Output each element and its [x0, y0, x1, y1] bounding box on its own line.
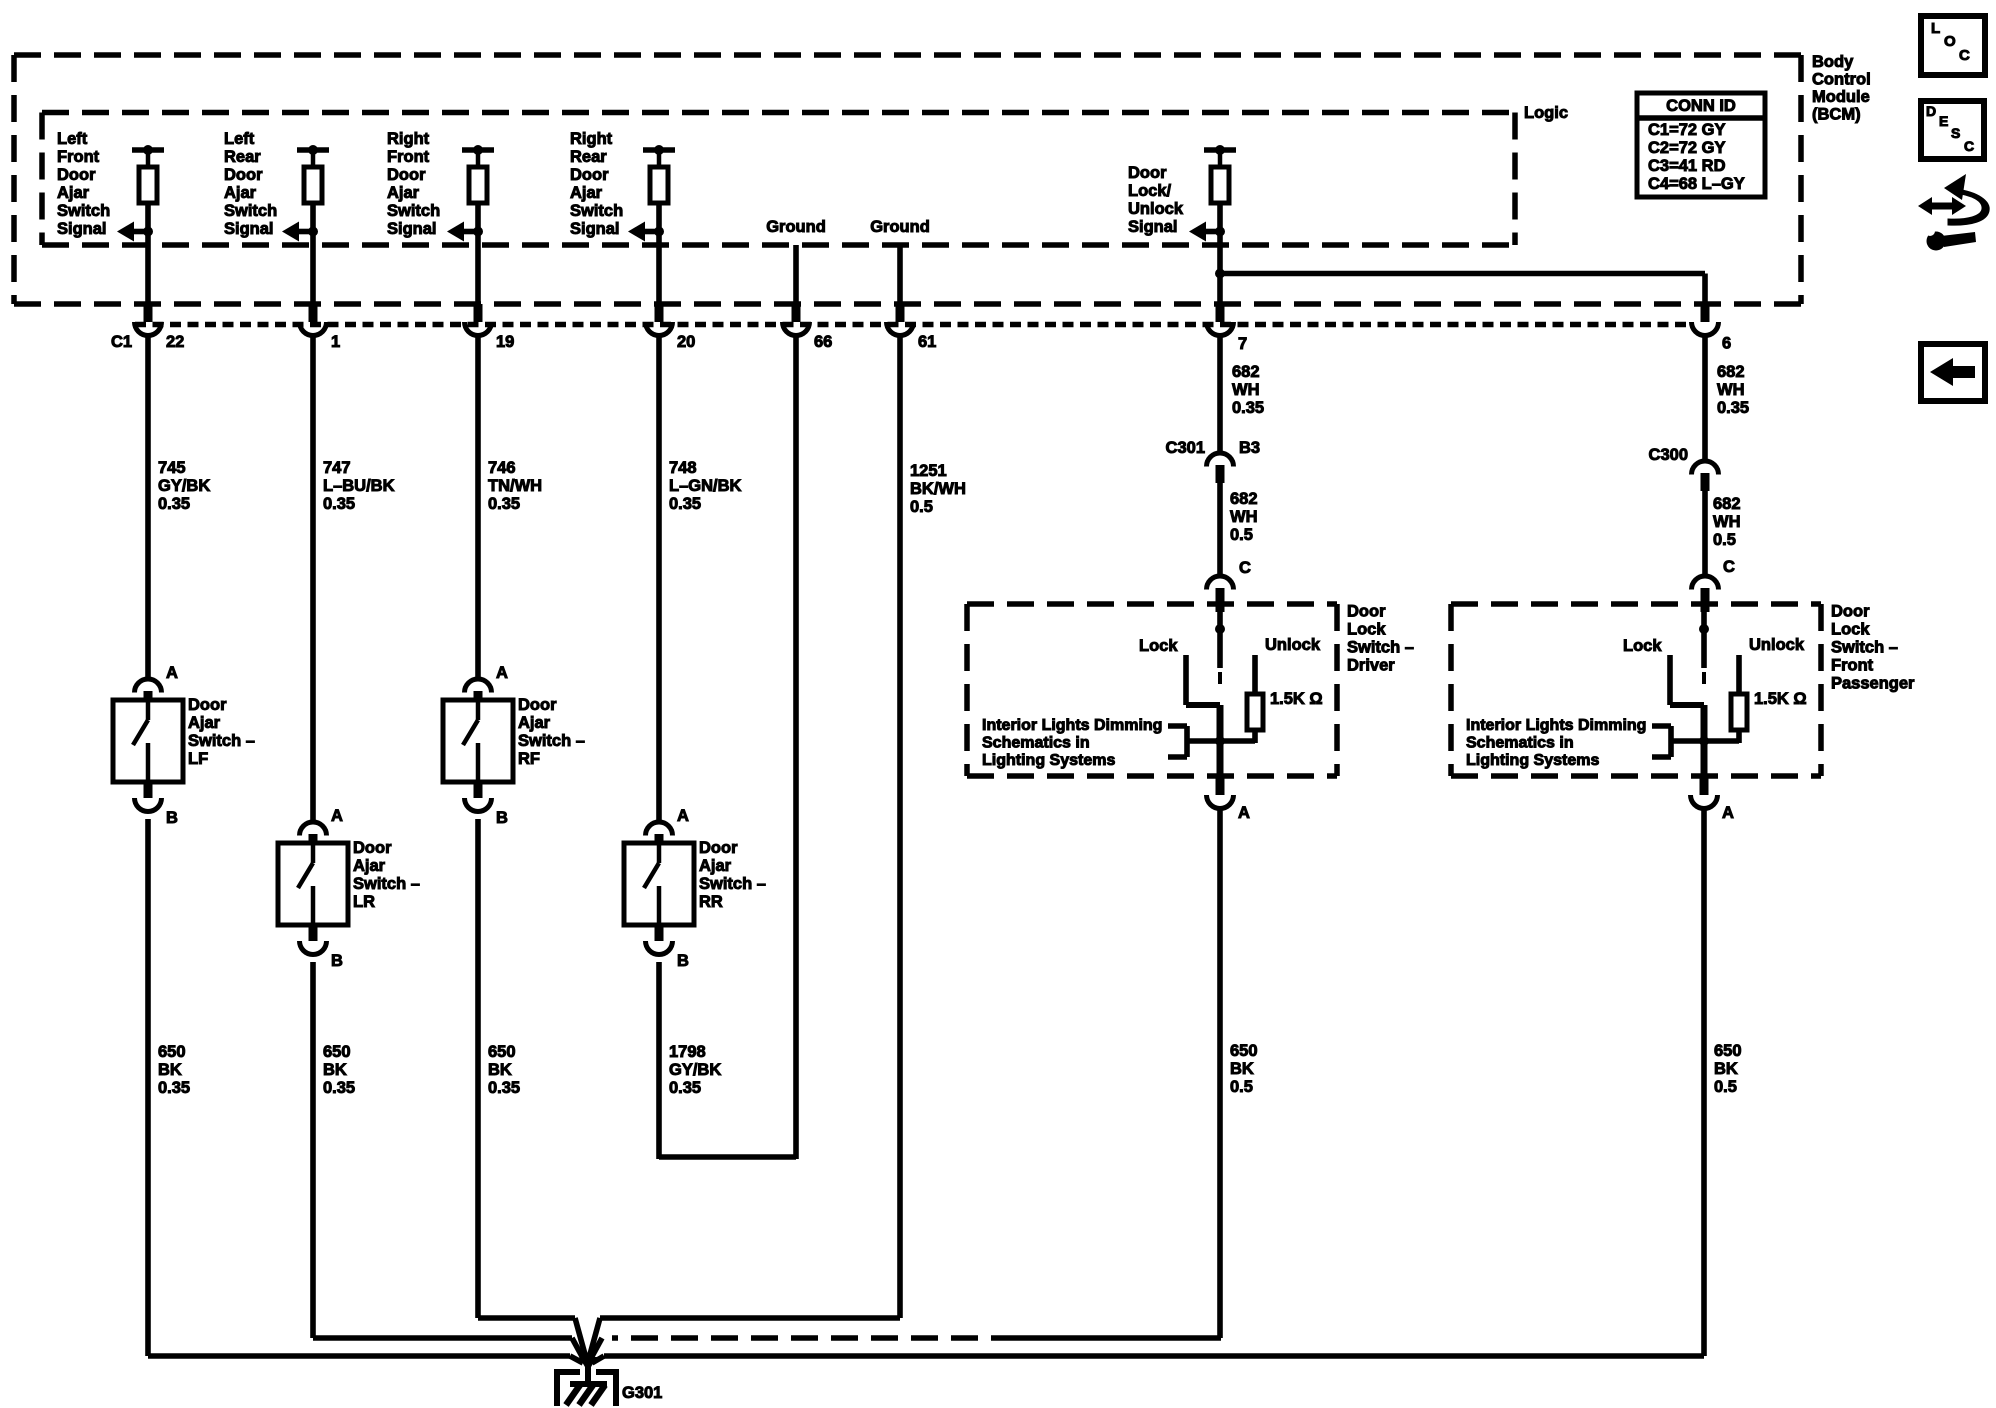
svg-text:B3: B3 — [1239, 439, 1260, 457]
connector A above switch — [646, 807, 690, 845]
ground wire to BCM pin 61 — [887, 245, 937, 351]
svg-text:Passenger: Passenger — [1831, 675, 1915, 693]
Door Ajar Switch – RR label — [699, 839, 766, 911]
connector B below switch — [300, 924, 344, 970]
svg-text:Front: Front — [57, 148, 100, 166]
wire to pin 20 and connector C1 pin 20 — [646, 232, 696, 351]
svg-text:C: C — [1964, 138, 1974, 154]
Door Lock Switch – Driver label — [1347, 603, 1414, 675]
wire branch to pin 6 — [1692, 304, 1732, 353]
svg-text:LF: LF — [188, 750, 208, 768]
svg-text:Lock: Lock — [1347, 621, 1386, 639]
svg-text:0.5: 0.5 — [1713, 531, 1736, 549]
switch common wire and blade — [1699, 612, 1709, 684]
door ajar switch box RF — [443, 700, 513, 782]
svg-text:LR: LR — [353, 893, 375, 911]
svg-text:Driver: Driver — [1347, 657, 1395, 675]
svg-text:C301: C301 — [1166, 439, 1205, 457]
svg-text:C300: C300 — [1649, 446, 1688, 464]
svg-text:748: 748 — [669, 459, 697, 477]
wire 748 L-GN/BK 0.35 — [659, 334, 742, 824]
svg-text:L: L — [1931, 20, 1940, 37]
svg-text:C2=72 GY: C2=72 GY — [1648, 139, 1726, 157]
svg-text:Door: Door — [1831, 603, 1870, 621]
svg-text:1251: 1251 — [910, 462, 947, 480]
Logic dashed outline — [42, 113, 1515, 246]
svg-text:Rear: Rear — [570, 148, 607, 166]
svg-text:650: 650 — [1714, 1042, 1742, 1060]
svg-text:Left: Left — [57, 130, 88, 148]
wire 1251 BK/WH 0.5 — [900, 334, 966, 1318]
svg-text:Switch –: Switch – — [699, 875, 766, 893]
Unlock label — [1749, 636, 1805, 654]
Body Control Module (BCM) dashed outline — [14, 55, 1801, 304]
svg-text:C1=72 GY: C1=72 GY — [1648, 121, 1726, 139]
BCM internal pull-up terminal for Right Front door ajar signal — [447, 145, 494, 242]
svg-text:B: B — [166, 809, 178, 827]
switch common wire and blade — [1215, 612, 1225, 684]
Lock label — [1623, 637, 1662, 655]
svg-text:Logic: Logic — [1524, 104, 1568, 122]
svg-text:0.35: 0.35 — [1717, 399, 1749, 417]
svg-text:650: 650 — [158, 1043, 186, 1061]
svg-text:Ajar: Ajar — [57, 184, 90, 202]
svg-text:S: S — [1951, 125, 1960, 141]
Unlock label — [1265, 636, 1321, 654]
svg-text:650: 650 — [488, 1043, 516, 1061]
door ajar switch box LF — [113, 700, 183, 782]
svg-text:Rear: Rear — [224, 148, 261, 166]
svg-text:Front: Front — [1831, 657, 1874, 675]
svg-text:0.35: 0.35 — [488, 1079, 520, 1097]
svg-text:WH: WH — [1717, 381, 1745, 399]
Ground label pin 61 — [870, 218, 930, 236]
svg-text:650: 650 — [1230, 1042, 1258, 1060]
svg-text:Switch: Switch — [224, 202, 277, 220]
Right Rear Door Ajar Switch Signal label — [570, 130, 623, 238]
Logic label — [1524, 104, 1568, 122]
BCM internal pull-up terminal for Right Rear door ajar signal — [628, 145, 675, 242]
svg-text:Switch –: Switch – — [1347, 639, 1414, 657]
svg-text:Ajar: Ajar — [353, 857, 386, 875]
left arrow icon — [1921, 344, 1985, 401]
svg-text:BK: BK — [488, 1061, 512, 1079]
svg-text:Door: Door — [224, 166, 263, 184]
svg-text:Signal: Signal — [387, 220, 437, 238]
svg-text:Unlock: Unlock — [1749, 636, 1805, 654]
svg-text:Lighting Systems: Lighting Systems — [1466, 752, 1599, 769]
svg-text:C: C — [1723, 558, 1735, 576]
svg-text:22: 22 — [166, 333, 184, 351]
BCM label — [1812, 53, 1871, 124]
wire 650 BK 0.35 from RF switch to ground — [478, 819, 575, 1318]
wire 650 BK 0.5 from passenger lock switch to ground — [604, 807, 1742, 1356]
svg-text:Ajar: Ajar — [188, 714, 221, 732]
wire 1251 BK/WH to ground run — [600, 1315, 900, 1321]
wire 745 GY/BK 0.35 — [148, 334, 210, 681]
wire 682 WH 0.5 (driver) — [1220, 483, 1258, 578]
svg-text:Left: Left — [224, 130, 255, 148]
wire to pin 1 and connector C1 pin 1 — [300, 232, 341, 351]
svg-text:Control: Control — [1812, 71, 1871, 89]
svg-text:Lock: Lock — [1623, 637, 1662, 655]
svg-text:Module: Module — [1812, 88, 1870, 106]
ground symbol G301 — [556, 1366, 662, 1406]
svg-text:A: A — [677, 807, 689, 825]
svg-text:Ground: Ground — [766, 218, 826, 236]
wire 682 WH 0.35 (passenger) — [1705, 334, 1749, 462]
svg-text:RR: RR — [699, 893, 723, 911]
1.5K ohm label — [1754, 690, 1807, 708]
svg-text:B: B — [677, 952, 689, 970]
wire from terminal to junction and pin 7 — [1207, 232, 1706, 353]
svg-text:Door: Door — [699, 839, 738, 857]
svg-text:BK/WH: BK/WH — [910, 480, 966, 498]
svg-text:WH: WH — [1230, 508, 1258, 526]
lock contact branch — [1186, 655, 1220, 705]
svg-text:0.35: 0.35 — [158, 495, 190, 513]
svg-text:Switch –: Switch – — [1831, 639, 1898, 657]
svg-text:Ajar: Ajar — [224, 184, 257, 202]
svg-text:0.5: 0.5 — [1714, 1078, 1737, 1096]
svg-text:GY/BK: GY/BK — [158, 477, 210, 495]
svg-text:Switch –: Switch – — [353, 875, 420, 893]
wire 650 BK 0.5 from driver lock switch to ground (dashed run) — [612, 807, 1258, 1338]
svg-text:C4=68 L–GY: C4=68 L–GY — [1648, 175, 1745, 193]
svg-text:Right: Right — [387, 130, 430, 148]
svg-text:19: 19 — [496, 333, 514, 351]
wire 747 L-BU/BK 0.35 — [313, 334, 395, 824]
Right Front Door Ajar Switch Signal label — [387, 130, 440, 238]
Left Front Door Ajar Switch Signal label — [57, 130, 110, 238]
svg-text:C: C — [1239, 559, 1251, 577]
svg-text:746: 746 — [488, 459, 516, 477]
wire 682 WH 0.5 (passenger) — [1705, 491, 1741, 578]
svg-text:B: B — [496, 809, 508, 827]
svg-text:0.5: 0.5 — [910, 498, 933, 516]
svg-text:Front: Front — [387, 148, 430, 166]
unlock contact branch with resistor 1.5K — [1731, 655, 1747, 743]
connector C301 pin B3 — [1166, 439, 1261, 483]
svg-text:B: B — [331, 952, 343, 970]
svg-text:61: 61 — [918, 333, 936, 351]
svg-text:0.35: 0.35 — [669, 495, 701, 513]
Door Lock Switch – Front Passenger label — [1831, 603, 1915, 693]
svg-text:Lock: Lock — [1831, 621, 1870, 639]
Door Ajar Switch – RF label — [518, 696, 585, 768]
connector B below switch — [646, 924, 690, 970]
1.5K ohm label — [1270, 690, 1323, 708]
ground splice convergence — [570, 1318, 604, 1372]
Door Ajar Switch – LF label — [188, 696, 255, 768]
ground wire to BCM pin 66 — [783, 245, 833, 351]
svg-text:Ajar: Ajar — [570, 184, 603, 202]
svg-text:Door: Door — [387, 166, 426, 184]
svg-text:Schematics in: Schematics in — [982, 735, 1090, 752]
svg-text:Schematics in: Schematics in — [1466, 735, 1574, 752]
Lock label — [1139, 637, 1178, 655]
svg-text:Ajar: Ajar — [387, 184, 420, 202]
connector C1 label — [111, 333, 132, 351]
svg-text:C: C — [1959, 47, 1970, 64]
svg-text:1.5K Ω: 1.5K Ω — [1754, 690, 1807, 708]
svg-text:GY/BK: GY/BK — [669, 1061, 721, 1079]
svg-text:Ajar: Ajar — [518, 714, 551, 732]
svg-text:O: O — [1944, 33, 1956, 50]
svg-text:A: A — [1722, 804, 1734, 822]
Left Rear Door Ajar Switch Signal label — [224, 130, 277, 238]
svg-text:Door: Door — [57, 166, 96, 184]
svg-text:650: 650 — [323, 1043, 351, 1061]
BCM internal terminal for door lock/unlock signal — [1189, 145, 1236, 242]
svg-text:Switch: Switch — [570, 202, 623, 220]
svg-text:Ajar: Ajar — [699, 857, 732, 875]
svg-text:Lock: Lock — [1139, 637, 1178, 655]
connector C at Door Lock Switch - Driver — [1207, 559, 1252, 612]
connector B below switch — [135, 781, 179, 827]
svg-text:L–GN/BK: L–GN/BK — [669, 477, 742, 495]
wrench — [1925, 226, 1976, 251]
svg-text:BK: BK — [1714, 1060, 1738, 1078]
svg-text:6: 6 — [1722, 335, 1731, 353]
wire 682 WH 0.35 (driver) — [1220, 334, 1264, 455]
svg-text:Door: Door — [353, 839, 392, 857]
Door Lock/Unlock Signal label — [1128, 164, 1184, 236]
svg-text:Interior Lights Dimming: Interior Lights Dimming — [1466, 717, 1646, 734]
door lock switch dashed box — [1451, 604, 1821, 776]
svg-text:0.35: 0.35 — [1232, 399, 1264, 417]
connector B below switch — [465, 781, 509, 827]
svg-text:WH: WH — [1713, 513, 1741, 531]
svg-text:Lighting Systems: Lighting Systems — [982, 752, 1115, 769]
connector C at Door Lock Switch - Front Passenger — [1692, 558, 1736, 612]
svg-text:Right: Right — [570, 130, 613, 148]
svg-text:D: D — [1926, 103, 1936, 119]
svg-text:CONN ID: CONN ID — [1666, 97, 1736, 115]
wire 746 TN/WH 0.35 — [478, 334, 542, 681]
door lock switch dashed box — [967, 604, 1337, 776]
unlock contact branch with resistor 1.5K — [1247, 655, 1263, 743]
connector A above switch — [300, 807, 344, 845]
svg-text:Signal: Signal — [1128, 218, 1178, 236]
svg-text:Signal: Signal — [570, 220, 620, 238]
svg-text:Door: Door — [570, 166, 609, 184]
BCM internal pull-up terminal for Left Front door ajar signal — [117, 145, 164, 242]
svg-text:Door: Door — [1128, 164, 1167, 182]
connector A above switch — [465, 664, 509, 702]
svg-text:1: 1 — [331, 333, 340, 351]
svg-text:Signal: Signal — [224, 220, 274, 238]
svg-text:7: 7 — [1238, 335, 1247, 353]
Ground label pin 66 — [766, 218, 826, 236]
svg-text:Door: Door — [518, 696, 557, 714]
svg-text:20: 20 — [677, 333, 695, 351]
svg-text:Switch: Switch — [57, 202, 110, 220]
svg-text:WH: WH — [1232, 381, 1260, 399]
svg-text:Door: Door — [188, 696, 227, 714]
svg-text:0.35: 0.35 — [158, 1079, 190, 1097]
Interior Lights Dimming reference — [982, 717, 1187, 769]
connector C300 — [1649, 446, 1719, 491]
svg-text:A: A — [331, 807, 343, 825]
svg-text:Signal: Signal — [57, 220, 107, 238]
svg-text:BK: BK — [323, 1061, 347, 1079]
svg-text:Body: Body — [1812, 53, 1854, 71]
wire 650 BK 0.35 from LR switch to ground — [313, 962, 572, 1338]
svg-text:682: 682 — [1232, 363, 1260, 381]
connector A below switch — [1207, 776, 1251, 822]
svg-text:C1: C1 — [111, 333, 132, 351]
svg-text:0.5: 0.5 — [1230, 1078, 1253, 1096]
door ajar switch box RR — [624, 843, 694, 925]
svg-text:682: 682 — [1230, 490, 1258, 508]
svg-text:66: 66 — [814, 333, 832, 351]
svg-text:E: E — [1939, 113, 1948, 129]
wire to pin 19 and connector C1 pin 19 — [465, 232, 515, 351]
svg-text:Ground: Ground — [870, 218, 930, 236]
svg-text:RF: RF — [518, 750, 540, 768]
svg-text:BK: BK — [1230, 1060, 1254, 1078]
svg-text:A: A — [1238, 804, 1250, 822]
svg-text:0.35: 0.35 — [488, 495, 520, 513]
svg-text:A: A — [496, 664, 508, 682]
svg-text:745: 745 — [158, 459, 186, 477]
svg-text:0.35: 0.35 — [323, 495, 355, 513]
svg-text:1.5K Ω: 1.5K Ω — [1270, 690, 1323, 708]
svg-text:747: 747 — [323, 459, 351, 477]
wire 1798 GY/BK 0.35 from RR switch to BCM ground pin 66 — [659, 334, 796, 1159]
connector A below switch — [1691, 776, 1735, 822]
svg-text:L–BU/BK: L–BU/BK — [323, 477, 395, 495]
wire 650 BK 0.35 from LF switch to ground — [148, 819, 570, 1356]
svg-text:0.5: 0.5 — [1230, 526, 1253, 544]
svg-text:1798: 1798 — [669, 1043, 706, 1061]
svg-text:0.35: 0.35 — [323, 1079, 355, 1097]
connector A above switch — [135, 664, 179, 702]
lock contact branch — [1670, 655, 1704, 705]
BCM connector interface dotted line — [135, 322, 1690, 328]
LOC icon — [1921, 16, 1985, 75]
switch output node wiring — [1671, 705, 1739, 778]
svg-text:Switch –: Switch – — [518, 732, 585, 750]
svg-text:Switch: Switch — [387, 202, 440, 220]
svg-text:C3=41 RD: C3=41 RD — [1648, 157, 1726, 175]
DESC icon — [1921, 101, 1984, 159]
svg-text:682: 682 — [1713, 495, 1741, 513]
svg-text:Switch –: Switch – — [188, 732, 255, 750]
BCM internal pull-up terminal for Left Rear door ajar signal — [282, 145, 329, 242]
svg-text:Interior Lights Dimming: Interior Lights Dimming — [982, 717, 1162, 734]
svg-text:Unlock: Unlock — [1265, 636, 1321, 654]
svg-text:TN/WH: TN/WH — [488, 477, 542, 495]
Door Ajar Switch – LR label — [353, 839, 420, 911]
svg-text:A: A — [166, 664, 178, 682]
CONN ID table — [1637, 93, 1765, 197]
door ajar switch box LR — [278, 843, 348, 925]
svg-text:BK: BK — [158, 1061, 182, 1079]
wire to pin 22 and connector C1 pin 22 — [135, 232, 185, 351]
svg-text:Door: Door — [1347, 603, 1386, 621]
Interior Lights Dimming reference — [1466, 717, 1671, 769]
svg-text:(BCM): (BCM) — [1812, 106, 1861, 124]
svg-text:Lock/: Lock/ — [1128, 182, 1172, 200]
repair wrench icon — [1918, 174, 1989, 225]
switch output node wiring — [1187, 705, 1255, 778]
svg-text:G301: G301 — [622, 1384, 662, 1402]
svg-text:0.35: 0.35 — [669, 1079, 701, 1097]
svg-text:682: 682 — [1717, 363, 1745, 381]
svg-text:Unlock: Unlock — [1128, 200, 1184, 218]
